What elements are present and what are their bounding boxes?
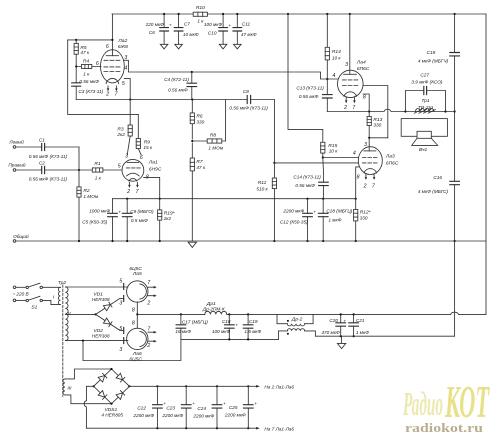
svg-text:Др-2ПМ-К: Др-2ПМ-К xyxy=(202,306,225,311)
La1 heater arrows pins 2,7 xyxy=(129,182,137,185)
svg-text:C11: C11 xyxy=(242,22,251,27)
svg-text:Левый: Левый xyxy=(8,138,24,144)
wire: La4 screen stub to riser x=387.8 xyxy=(363,86,388,138)
ground symbol below C11 xyxy=(234,44,242,49)
La2 grid dashes pin4 xyxy=(104,66,120,68)
wire: C16 column continues to PSU ground line xyxy=(454,241,456,336)
capacitor C23 xyxy=(185,386,187,428)
La4 cathode arc xyxy=(344,92,357,97)
wire: winding II top to La5 pin5 xyxy=(65,286,128,288)
svg-text:C9 (МБГО): C9 (МБГО) xyxy=(130,209,154,214)
svg-text:C20: C20 xyxy=(329,318,338,323)
arrow: heater- output xyxy=(248,427,256,429)
svg-text:4: 4 xyxy=(124,65,127,71)
svg-text:510 к: 510 к xyxy=(256,186,268,191)
svg-text:R1: R1 xyxy=(94,161,101,167)
svg-text:На 7 Ла1-Ла6: На 7 Ла1-Ла6 xyxy=(264,426,294,431)
capacitor C11 xyxy=(236,14,238,44)
svg-text:0.56 мкФ (К73-11): 0.56 мкФ (К73-11) xyxy=(229,106,268,111)
svg-text:C10: C10 xyxy=(208,30,217,35)
inductor Dr2 top winding xyxy=(287,324,304,326)
svg-text:+: + xyxy=(118,209,121,214)
input terminal Left xyxy=(13,146,16,149)
La4 grid dashes xyxy=(342,79,357,81)
La1 inner cathode bump xyxy=(129,179,137,182)
svg-text:C27: C27 xyxy=(420,72,429,77)
svg-text:+: + xyxy=(343,318,346,323)
svg-text:HER308: HER308 xyxy=(92,297,110,302)
bridge VDS1 diamond xyxy=(94,369,130,404)
svg-text:+: + xyxy=(235,322,238,327)
svg-text:C5 (К50-35): C5 (К50-35) xyxy=(82,219,108,224)
svg-text:На 2 Ла1-Ла6: На 2 Ла1-Ла6 xyxy=(264,384,294,389)
svg-text:3.9 мкФ (КСО): 3.9 мкФ (КСО) xyxy=(411,79,443,84)
wire: B+ tap column x=288 down and over to R15 xyxy=(288,14,323,142)
resistor R12* xyxy=(355,199,357,241)
svg-text:0.56 мкФ: 0.56 мкФ xyxy=(168,87,188,92)
svg-text:330: 330 xyxy=(196,119,204,124)
wire: bridge DC- with hop over AC wire down to heater- rail xyxy=(84,386,93,428)
tube U La1 6Н9С envelope xyxy=(122,159,144,181)
La3 heater arrows pins 2,7 xyxy=(366,174,374,177)
svg-text:6: 6 xyxy=(140,155,143,161)
svg-text:Ла4: Ла4 xyxy=(356,59,366,65)
input terminal Right xyxy=(13,169,16,172)
svg-text:100 мкФ: 100 мкФ xyxy=(212,329,231,334)
wire: heater- bottom rail xyxy=(86,427,248,429)
wire: La4 cathode pin8 drop xyxy=(363,94,369,112)
capacitor C25 xyxy=(247,386,249,428)
svg-text:C21: C21 xyxy=(356,318,365,323)
svg-text:2к2: 2к2 xyxy=(163,216,172,221)
wire: grid1 wire to La3 xyxy=(323,157,358,159)
svg-text:1 мкФ: 1 мкФ xyxy=(356,330,369,335)
svg-text:6П6С: 6П6С xyxy=(357,66,370,72)
svg-text:ТВ-2Ш: ТВ-2Ш xyxy=(418,105,434,111)
La3 cathode arc xyxy=(364,169,376,173)
switch S1 pole 2 xyxy=(16,299,26,301)
ground rail (Общий) xyxy=(16,240,486,242)
svg-text:+: + xyxy=(223,401,226,406)
svg-text:0.56 мкФ (К73-11): 0.56 мкФ (К73-11) xyxy=(29,154,68,159)
La4 plate riser to rail xyxy=(349,14,351,74)
capacitor C13 xyxy=(326,79,328,95)
La2 cathode arc xyxy=(106,78,119,83)
diode VD1 xyxy=(96,298,124,314)
capacitor C5 xyxy=(112,199,114,241)
capacitor C17 xyxy=(180,314,182,339)
wire: C8 output column down to grid wire xyxy=(273,100,275,163)
wire: filter bottom rail down to HV return xyxy=(83,339,181,360)
ground symbol below C6 xyxy=(160,44,168,49)
svg-text:15 к: 15 к xyxy=(143,145,153,150)
terminal Obschiy xyxy=(13,240,16,243)
transformer Tr2 winding II xyxy=(65,287,68,341)
svg-text:C1: C1 xyxy=(39,137,45,142)
capacitor C24 xyxy=(216,386,218,428)
La3 plate bar xyxy=(364,150,376,152)
wire: PSU B+ line from rectifier cathodes to the right xyxy=(137,312,486,314)
tube U La4 6П6С envelope xyxy=(338,70,364,97)
capacitor C12 xyxy=(307,199,309,241)
wire: Dr2 bottom out down to PSU ground line xyxy=(305,331,316,336)
svg-text:220 мкФ: 220 мкФ xyxy=(145,22,165,27)
La4 plate bar xyxy=(344,73,357,75)
svg-text:Ла1: Ла1 xyxy=(148,159,158,165)
svg-text:2к2: 2к2 xyxy=(116,132,125,137)
svg-text:0.56 мкФ: 0.56 мкФ xyxy=(295,183,315,188)
svg-text:C7: C7 xyxy=(184,22,190,27)
svg-text:C14 (К73-11): C14 (К73-11) xyxy=(293,175,321,180)
capacitor C3 xyxy=(75,67,77,100)
svg-text:Вч1: Вч1 xyxy=(419,147,428,153)
wire: La2 pin3 anode out, over to La4 grid xyxy=(124,60,337,79)
svg-text:0.56 мкФ (К73-11): 0.56 мкФ (К73-11) xyxy=(29,176,68,181)
svg-text:C3 (К73-11): C3 (К73-11) xyxy=(78,89,103,94)
resistor R6 xyxy=(191,100,193,139)
wire: left feedback line down and over to R9 xyxy=(68,40,139,115)
capacitor C18 PSU xyxy=(228,314,230,339)
svg-text:10 к: 10 к xyxy=(329,148,339,153)
La6 heater arrows xyxy=(148,332,154,341)
La2 plate bar xyxy=(106,55,118,57)
wire: switch to Tr2 primary xyxy=(42,287,60,304)
svg-text:10 к: 10 к xyxy=(332,55,342,60)
capacitor C22 xyxy=(156,386,158,428)
svg-text:2: 2 xyxy=(363,184,367,190)
La6 plate bars xyxy=(123,327,125,343)
svg-text:4 мкФ (МБГС): 4 мкФ (МБГС) xyxy=(418,189,449,194)
svg-text:1 к: 1 к xyxy=(95,175,102,180)
svg-text:3: 3 xyxy=(345,62,348,68)
svg-text:+: + xyxy=(169,23,172,28)
svg-text:3: 3 xyxy=(119,301,122,307)
speaker box Tr1 xyxy=(401,119,447,137)
svg-text:R8: R8 xyxy=(210,133,217,139)
svg-text:2: 2 xyxy=(343,105,347,111)
svg-text:5: 5 xyxy=(119,278,122,284)
svg-text:4 мкФ (МБГЧ): 4 мкФ (МБГЧ) xyxy=(418,58,449,63)
svg-text:4: 4 xyxy=(353,150,356,156)
La5 cathode curve xyxy=(140,284,146,299)
resistor R4 xyxy=(76,66,101,68)
La1 grid dashes xyxy=(126,167,140,169)
bridge diode lower-left xyxy=(98,391,105,398)
svg-text:C16: C16 xyxy=(433,175,442,180)
capacitor C2 xyxy=(16,169,79,171)
inductor: Tr1 primary coil xyxy=(414,109,435,114)
transformer Tr2 core (dashed) xyxy=(62,285,64,397)
mains terminal 2 xyxy=(13,299,16,302)
La6 cathode curve xyxy=(140,331,146,346)
resistor R10 xyxy=(193,12,207,16)
svg-text:Общий: Общий xyxy=(13,233,29,239)
svg-text:C6: C6 xyxy=(149,30,155,35)
bridge diode lower-right xyxy=(116,393,123,400)
svg-text:330: 330 xyxy=(360,216,368,221)
La4 heater arrows pins 2,7 xyxy=(346,97,354,100)
mains terminal 1 xyxy=(13,286,16,289)
svg-text:8: 8 xyxy=(357,174,360,180)
svg-text:+: + xyxy=(313,209,316,214)
svg-text:R4: R4 xyxy=(83,59,90,65)
svg-text:3: 3 xyxy=(364,142,367,148)
La1 cathode arc xyxy=(127,173,140,176)
wire: grid2 wire to La3 xyxy=(274,162,358,164)
wire: PSU filter bottom rail xyxy=(181,338,279,340)
ground symbol below C7 xyxy=(175,44,183,49)
svg-text:III: III xyxy=(67,385,72,391)
junction dots on top rail xyxy=(163,13,165,15)
svg-text:2200 мкФ: 2200 мкФ xyxy=(132,413,154,418)
svg-text:Ла2: Ла2 xyxy=(117,38,127,44)
wire: top B+ rail xyxy=(112,13,486,15)
wire: R14/C13 column from rail xyxy=(326,14,328,47)
resistor R3 xyxy=(127,100,130,155)
capacitor C8 xyxy=(247,95,250,103)
La2 anode riser to rail xyxy=(111,14,113,56)
svg-text:C4 (К72-11): C4 (К72-11) xyxy=(164,77,189,82)
wire: winding II bottom to La6 pin3 xyxy=(65,340,128,342)
tube U La2 6Ж8 envelope xyxy=(101,50,125,83)
svg-text:4 HER805: 4 HER805 xyxy=(101,413,123,418)
svg-text:470 мкФ: 470 мкФ xyxy=(321,330,340,335)
svg-text:C28 (МБГЦ): C28 (МБГЦ) xyxy=(326,208,352,213)
svg-text:~ 220 В: ~ 220 В xyxy=(12,291,28,296)
resistor R1 xyxy=(79,169,122,171)
inductor Dr2 bottom winding xyxy=(287,329,304,331)
capacitor C18 top right column xyxy=(454,14,456,53)
bridge diode upper-right xyxy=(116,373,123,379)
svg-text:Ла6: Ла6 xyxy=(132,351,142,357)
svg-text:8: 8 xyxy=(132,307,135,313)
svg-text:Ла5: Ла5 xyxy=(132,271,142,277)
capacitor C9 xyxy=(126,199,128,241)
bridge diode upper-left xyxy=(98,376,105,382)
svg-text:4: 4 xyxy=(332,73,335,79)
La5 plate bars xyxy=(123,283,125,301)
svg-text:47 к: 47 к xyxy=(196,165,206,170)
svg-text:100 мкФ: 100 мкФ xyxy=(204,22,223,27)
ground symbol on PSU ground line xyxy=(337,336,345,348)
capacitor C1 xyxy=(16,146,79,148)
svg-text:radiokot.ru: radiokot.ru xyxy=(405,420,483,435)
wire: La6 pin8 up to B+ node xyxy=(136,314,138,328)
svg-text:47 к: 47 к xyxy=(80,50,90,55)
svg-text:C19: C19 xyxy=(249,319,258,324)
La2 grid dashes pin5 xyxy=(104,71,120,73)
svg-text:5: 5 xyxy=(122,81,125,87)
resistor R13 xyxy=(368,112,370,138)
ground symbol below R7 xyxy=(188,242,196,247)
svg-text:3: 3 xyxy=(119,347,122,353)
diode VD2 xyxy=(96,314,124,330)
wire: winding III top to bridge AC top xyxy=(65,369,112,379)
wire: La5 pin8 down to B+ node xyxy=(136,302,138,314)
svg-text:C8: C8 xyxy=(243,89,249,94)
svg-text:C12 (К50-35): C12 (К50-35) xyxy=(280,219,308,224)
resistor R14 xyxy=(325,47,329,60)
capacitor C21 xyxy=(353,314,355,336)
svg-text:C25: C25 xyxy=(229,405,238,410)
wire: La1 pin8 cathode to cathode rail xyxy=(144,177,160,198)
svg-text:6П6С: 6П6С xyxy=(386,161,399,167)
svg-text:C17 (МБГЦ): C17 (МБГЦ) xyxy=(182,320,208,325)
capacitor C20 xyxy=(340,314,342,336)
svg-text:Тр1: Тр1 xyxy=(421,98,430,104)
svg-text:C24: C24 xyxy=(197,406,206,411)
La3 plate riser xyxy=(368,138,370,151)
svg-text:+: + xyxy=(228,23,231,28)
capacitor C14 xyxy=(319,182,329,185)
svg-text:2200 мкФ: 2200 мкФ xyxy=(282,209,304,214)
svg-text:16 мкФ: 16 мкФ xyxy=(175,329,191,334)
svg-text:C18: C18 xyxy=(427,50,436,55)
svg-text:Др-2: Др-2 xyxy=(291,316,303,322)
svg-text:3: 3 xyxy=(125,153,128,159)
wire: R5 top feed xyxy=(68,39,113,41)
capacitor C27 branch across primary xyxy=(405,91,445,112)
wire: B+ riser right side xyxy=(485,14,487,314)
capacitor C19 xyxy=(247,314,249,339)
wire: cathode/feedback line y=111.5 with hop, to Tr1 primary xyxy=(327,109,454,111)
wire: winding III bottom to bridge AC bottom xyxy=(65,395,112,404)
wire: La3 cathode pin8 to cathode rail and R12 xyxy=(356,167,359,199)
svg-text:R14: R14 xyxy=(332,49,341,55)
svg-text:8: 8 xyxy=(363,94,366,100)
wire: Dr2 top out back up to B+ line xyxy=(305,314,313,323)
wire: PSU ground line to C16 column riser xyxy=(315,335,454,337)
resistor R7 xyxy=(191,143,193,241)
resistor R19* xyxy=(159,199,161,241)
resistor R2 xyxy=(78,170,80,241)
resistor R8 xyxy=(192,100,225,142)
tube U La5 6Ц5С envelope xyxy=(127,281,148,302)
svg-text:Радио: Радио xyxy=(403,386,443,423)
svg-text:6: 6 xyxy=(96,61,99,67)
svg-text:0.56 мкФ: 0.56 мкФ xyxy=(79,79,99,84)
wire: winding II center tap to VD node xyxy=(65,313,95,315)
svg-text:0.5 мкФ: 0.5 мкФ xyxy=(131,218,148,223)
svg-text:C23: C23 xyxy=(166,405,175,410)
svg-text:6Н9С: 6Н9С xyxy=(149,166,162,172)
svg-text:C18: C18 xyxy=(222,319,231,324)
capacitor C10 xyxy=(222,14,224,44)
svg-text:5: 5 xyxy=(119,326,122,332)
capacitor C4 xyxy=(191,72,193,100)
svg-text:2200 мкФ: 2200 мкФ xyxy=(224,412,246,417)
svg-text:2: 2 xyxy=(105,92,109,98)
resistor R15 xyxy=(321,142,325,153)
svg-text:10 мкФ: 10 мкФ xyxy=(183,32,199,37)
svg-text:1 к: 1 к xyxy=(83,71,90,76)
capacitor C16 xyxy=(454,112,456,182)
svg-text:1000 мкФ: 1000 мкФ xyxy=(89,209,110,214)
tube U La6 6Ц5С envelope xyxy=(127,328,148,349)
svg-text:C2: C2 xyxy=(39,160,45,165)
svg-text:2: 2 xyxy=(146,343,150,349)
resistor R11 xyxy=(273,163,275,241)
wire: cathode rail y=198.7 xyxy=(113,198,356,200)
svg-text:6Ж8: 6Ж8 xyxy=(118,44,128,50)
arrow: heater+ output xyxy=(248,385,256,387)
transformer Tr2 winding I xyxy=(58,287,60,304)
svg-text:HER308: HER308 xyxy=(92,333,110,338)
wire: plate node to Tr1 primary left riser xyxy=(369,137,388,139)
svg-text:2: 2 xyxy=(146,300,150,306)
La5 heater arrows xyxy=(148,287,154,296)
svg-text:1 мкФ: 1 мкФ xyxy=(328,217,341,222)
svg-text:Правый: Правый xyxy=(8,162,26,168)
resistor R9 xyxy=(138,114,141,154)
svg-text:Ла3: Ла3 xyxy=(385,153,395,159)
svg-text:2200 мкФ: 2200 мкФ xyxy=(161,413,183,418)
svg-text:8: 8 xyxy=(132,320,135,326)
svg-text:C22: C22 xyxy=(137,405,146,410)
wire: heater+ top rail from bridge DC+ xyxy=(129,385,248,387)
svg-text:R10: R10 xyxy=(196,5,205,11)
wire: signal line y=99.5 from C3 to C8 xyxy=(76,99,274,101)
ground symbol below C10 xyxy=(219,44,227,49)
svg-text:+: + xyxy=(254,401,257,406)
svg-text:5: 5 xyxy=(118,164,121,170)
svg-text:2200 мкФ: 2200 мкФ xyxy=(192,413,214,418)
svg-text:+: + xyxy=(192,401,195,406)
svg-text:6Ц5С: 6Ц5С xyxy=(129,356,142,362)
tube U La3 6П6С envelope xyxy=(358,147,382,175)
svg-text:1 МОм: 1 МОм xyxy=(83,194,98,199)
svg-text:47 мкФ: 47 мкФ xyxy=(241,32,257,37)
La3 grid dashes xyxy=(362,157,377,159)
inductor Dr1 choke xyxy=(205,311,227,314)
wire: La2 pin5 cathode drop xyxy=(124,79,130,100)
svg-text:330: 330 xyxy=(373,122,381,127)
wire: R15 junction slant down to C14 xyxy=(322,158,325,183)
speaker Вч1 rectangle xyxy=(417,131,431,138)
resistor R5 xyxy=(75,40,77,67)
wire: Dr2 bottom left step from ground line xyxy=(278,331,287,340)
svg-text:1.5 мкФ: 1.5 мкФ xyxy=(244,329,261,334)
capacitor C6 xyxy=(163,14,165,44)
svg-text:Тр2: Тр2 xyxy=(58,280,67,286)
wire: B+ step down into Dr2 top winding xyxy=(277,314,287,323)
svg-text:0.56 мкФ: 0.56 мкФ xyxy=(299,94,319,99)
svg-text:2: 2 xyxy=(126,189,130,195)
transformer Tr2 winding III xyxy=(63,379,65,395)
La2 heater arrows pins 2,7 xyxy=(108,86,116,89)
La1 plate bar xyxy=(127,161,138,163)
switch S1 pole 1 xyxy=(16,286,26,288)
svg-text:1 МОм: 1 МОм xyxy=(208,145,223,150)
capacitor C28 xyxy=(322,199,324,241)
wire: C1 branch down to input node xyxy=(78,147,80,170)
svg-text:R11: R11 xyxy=(258,180,267,186)
svg-text:6: 6 xyxy=(106,44,109,50)
svg-text:C13 (К73-11): C13 (К73-11) xyxy=(296,86,324,91)
La2 grid dashes pin3 xyxy=(104,59,120,61)
svg-text:S1: S1 xyxy=(31,304,37,310)
speaker Вч1 cone xyxy=(412,138,438,145)
capacitor C7 xyxy=(178,14,180,44)
